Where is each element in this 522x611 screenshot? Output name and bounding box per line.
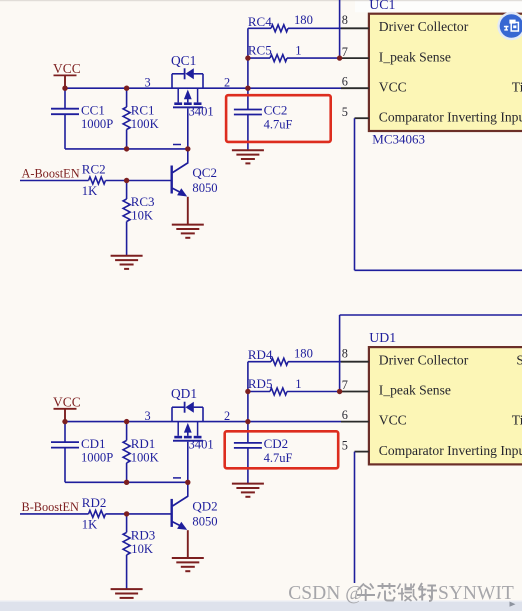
svg-text:RD5: RD5 [248, 376, 273, 391]
UC1 pin 6 stub [341, 87, 369, 89]
power flag VCC (bottom section) [53, 395, 81, 422]
resistor RD3 [123, 514, 130, 589]
capacitor CC1 [51, 88, 79, 114]
op-chip UD1 (MC34063) body [369, 347, 522, 464]
svg-text:1: 1 [295, 377, 301, 391]
svg-text:RC2: RC2 [82, 162, 106, 177]
bottom scrollbar strip [0, 601, 522, 611]
wire from right edge into pin7 node [340, 315, 522, 392]
svg-text:CD2: CD2 [264, 436, 289, 451]
UD1 pin 7 stub [341, 391, 369, 393]
svg-text:A-BoostEN: A-BoostEN [22, 167, 80, 181]
transistor QD2 (NPN 8050) [171, 482, 189, 558]
svg-text:2: 2 [224, 409, 230, 423]
svg-text:10K: 10K [131, 208, 153, 222]
svg-text:3: 3 [145, 409, 151, 423]
watermark CSDN @huaxinweite SYNWIT [288, 583, 514, 604]
svg-text:I_peak Sense: I_peak Sense [379, 49, 451, 64]
junction node 2 / C2 top [245, 419, 250, 424]
svg-text:180: 180 [294, 13, 313, 27]
resistor RD2 [89, 510, 106, 517]
svg-text:3401: 3401 [189, 438, 214, 452]
wire left feed rail [247, 28, 249, 88]
ground below RD3 [111, 588, 143, 590]
svg-text:Ti: Ti [512, 413, 522, 428]
transistor QC2 (NPN 8050) [171, 149, 189, 225]
wire boost-enable [20, 513, 172, 515]
junction node pin7 [337, 389, 342, 394]
svg-text:4.7uF: 4.7uF [264, 117, 293, 131]
svg-text:8: 8 [342, 347, 348, 361]
resistor RC1 [123, 88, 130, 149]
ground below RC3 [111, 255, 143, 257]
wire main rail node3-node2 to pin 6 [65, 87, 341, 89]
junction node boost [124, 511, 129, 516]
svg-text:6: 6 [342, 75, 348, 89]
capacitor CD2 (4.7uF) [234, 422, 262, 484]
floating blue translate icon [497, 12, 522, 40]
svg-text:Ti: Ti [512, 79, 522, 94]
UD1 pin 6 stub [341, 421, 369, 423]
junction node R1 bottom [124, 480, 129, 485]
resistor RD5 [248, 388, 341, 395]
resistor RC5 [248, 55, 341, 62]
red highlight box around CC2 [226, 95, 331, 142]
junction node R1 top [124, 419, 129, 424]
svg-text:B-BoostEN: B-BoostEN [22, 500, 80, 514]
wire CC bottom rail [65, 448, 188, 483]
resistor RD1 [123, 422, 130, 483]
power flag VCC (top section) [53, 61, 81, 88]
svg-text:S: S [516, 352, 522, 367]
svg-text:VCC: VCC [53, 61, 81, 76]
ground below QD2 [172, 557, 204, 559]
polarity dash mark [173, 477, 181, 479]
svg-text:CSDN @: CSDN @ [288, 583, 363, 604]
junction node gate [185, 480, 190, 485]
svg-text:3401: 3401 [189, 104, 214, 118]
junction node feed/pin7 left [245, 55, 250, 60]
svg-text:7: 7 [342, 45, 348, 59]
svg-text:RC1: RC1 [131, 103, 155, 118]
svg-text:6: 6 [342, 408, 348, 422]
svg-text:QC1: QC1 [171, 53, 196, 68]
svg-text:1: 1 [295, 44, 301, 58]
svg-text:RC3: RC3 [131, 194, 155, 209]
svg-text:RC5: RC5 [248, 43, 272, 58]
capacitor CD1 [51, 422, 79, 448]
svg-text:RD1: RD1 [131, 436, 156, 451]
svg-text:100K: 100K [131, 117, 159, 131]
svg-text:CC1: CC1 [81, 103, 105, 118]
wire main rail node3-node2 to pin 6 [65, 421, 341, 423]
junction node pin7 [337, 55, 342, 60]
svg-text:180: 180 [294, 347, 313, 361]
svg-text:Driver Collector: Driver Collector [379, 19, 469, 34]
capacitor CC2 (4.7uF) [234, 88, 262, 150]
svg-text:10K: 10K [131, 542, 153, 556]
svg-text:100K: 100K [131, 451, 159, 465]
ground below CC2 [232, 149, 264, 151]
ground below QC2 [172, 224, 204, 226]
wire left feed rail [247, 362, 249, 422]
small grey play arrow [510, 602, 516, 607]
white area above chip top right [355, 0, 522, 12]
svg-text:QC2: QC2 [192, 165, 217, 180]
resistor RD4 [248, 358, 341, 365]
junction node R1 bottom [124, 146, 129, 151]
UD1 pin 5 stub [355, 451, 369, 453]
UD1 pin 8 stub [341, 361, 369, 363]
wire from top edge to pin7 node [339, 0, 341, 58]
junction node VCC rail [62, 419, 67, 424]
svg-text:7: 7 [342, 378, 348, 392]
svg-text:1K: 1K [82, 184, 97, 198]
svg-text:4.7uF: 4.7uF [264, 451, 293, 465]
red highlight box around CD2 [225, 431, 339, 468]
UC1 pin 5 stub [355, 117, 369, 119]
junction node R1 top [124, 86, 129, 91]
svg-text:RD3: RD3 [131, 527, 156, 542]
svg-text:SYNWIT: SYNWIT [438, 583, 514, 604]
svg-text:8: 8 [342, 13, 348, 27]
svg-text:RD2: RD2 [82, 495, 107, 510]
transistor QD1 (P-MOSFET 3401) [172, 402, 203, 483]
svg-text:8050: 8050 [192, 515, 217, 529]
svg-text:5: 5 [342, 439, 348, 453]
svg-text:CD1: CD1 [81, 436, 106, 451]
resistor RC4 [248, 25, 341, 32]
svg-text:3: 3 [145, 75, 151, 89]
svg-text:VCC: VCC [53, 395, 81, 410]
svg-text:5: 5 [342, 105, 348, 119]
ground below CD2 [232, 483, 264, 485]
svg-text:VCC: VCC [379, 413, 407, 428]
resistor RC3 [123, 181, 130, 256]
svg-text:1000P: 1000P [81, 451, 113, 465]
junction node feed/pin7 left [245, 389, 250, 394]
svg-text:8050: 8050 [192, 181, 217, 195]
svg-text:1000P: 1000P [81, 117, 113, 131]
faint top edge line [0, 0, 522, 1]
op-chip UC1 (MC34063) body [369, 14, 522, 131]
svg-text:1K: 1K [82, 518, 97, 532]
UC1 pin 7 stub [341, 57, 369, 59]
polarity dash mark [173, 144, 181, 146]
svg-text:RD4: RD4 [248, 347, 273, 362]
svg-text:Driver Collector: Driver Collector [379, 352, 469, 367]
junction node gate [185, 146, 190, 151]
UC1 pin 8 stub [341, 27, 369, 29]
svg-text:UD1: UD1 [369, 330, 396, 345]
wire CC bottom rail [65, 114, 188, 149]
transistor QC1 (P-MOSFET 3401) [172, 68, 203, 149]
svg-text:RC4: RC4 [248, 14, 272, 29]
svg-text:Comparator Inverting Input: Comparator Inverting Input [379, 109, 522, 124]
wire boost-enable [20, 180, 172, 182]
junction node VCC rail [62, 86, 67, 91]
svg-text:CC2: CC2 [264, 102, 288, 117]
resistor RC2 [89, 177, 106, 184]
svg-text:MC34063: MC34063 [372, 132, 425, 147]
svg-text:VCC: VCC [379, 79, 407, 94]
svg-text:QD2: QD2 [192, 498, 217, 513]
svg-text:2: 2 [224, 75, 230, 89]
junction node 2 / C2 top [245, 86, 250, 91]
svg-text:UC1: UC1 [369, 0, 395, 12]
wire pin5 down and right [355, 118, 522, 270]
svg-text:Comparator Inverting Input: Comparator Inverting Input [379, 443, 522, 458]
svg-text:I_peak Sense: I_peak Sense [379, 383, 451, 398]
junction node boost [124, 178, 129, 183]
svg-text:QD1: QD1 [171, 386, 197, 401]
wire pin5 down [354, 452, 356, 583]
